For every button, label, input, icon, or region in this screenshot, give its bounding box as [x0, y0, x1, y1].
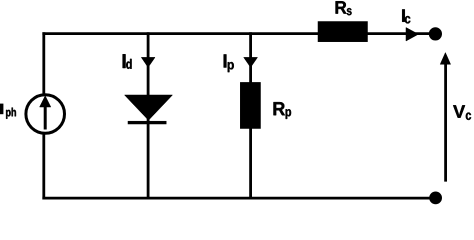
current source Iph	[26, 95, 65, 134]
wire top horizontal	[42, 32, 435, 35]
resistor Rp body	[240, 82, 260, 128]
wire left vertical	[42, 32, 45, 199]
resistor Rs body	[318, 22, 368, 42]
label Id	[123, 54, 132, 69]
current arrow Id	[141, 57, 155, 67]
label Rs	[336, 1, 352, 15]
current arrow Ip	[244, 57, 258, 67]
wire bottom horizontal	[42, 197, 435, 200]
diode D1	[125, 95, 173, 124]
current arrowhead Ic	[406, 28, 418, 42]
label Ic	[402, 9, 410, 23]
label Rp	[274, 102, 292, 119]
label Iph	[0, 104, 16, 119]
wire Rp branch vertical	[249, 32, 252, 199]
voltage arrow Vc	[440, 53, 450, 182]
label Vc	[453, 105, 471, 120]
node terminal top right	[429, 27, 442, 40]
label Ip	[224, 54, 234, 72]
node terminal bottom right	[429, 192, 442, 205]
wire diode branch vertical	[147, 32, 150, 199]
